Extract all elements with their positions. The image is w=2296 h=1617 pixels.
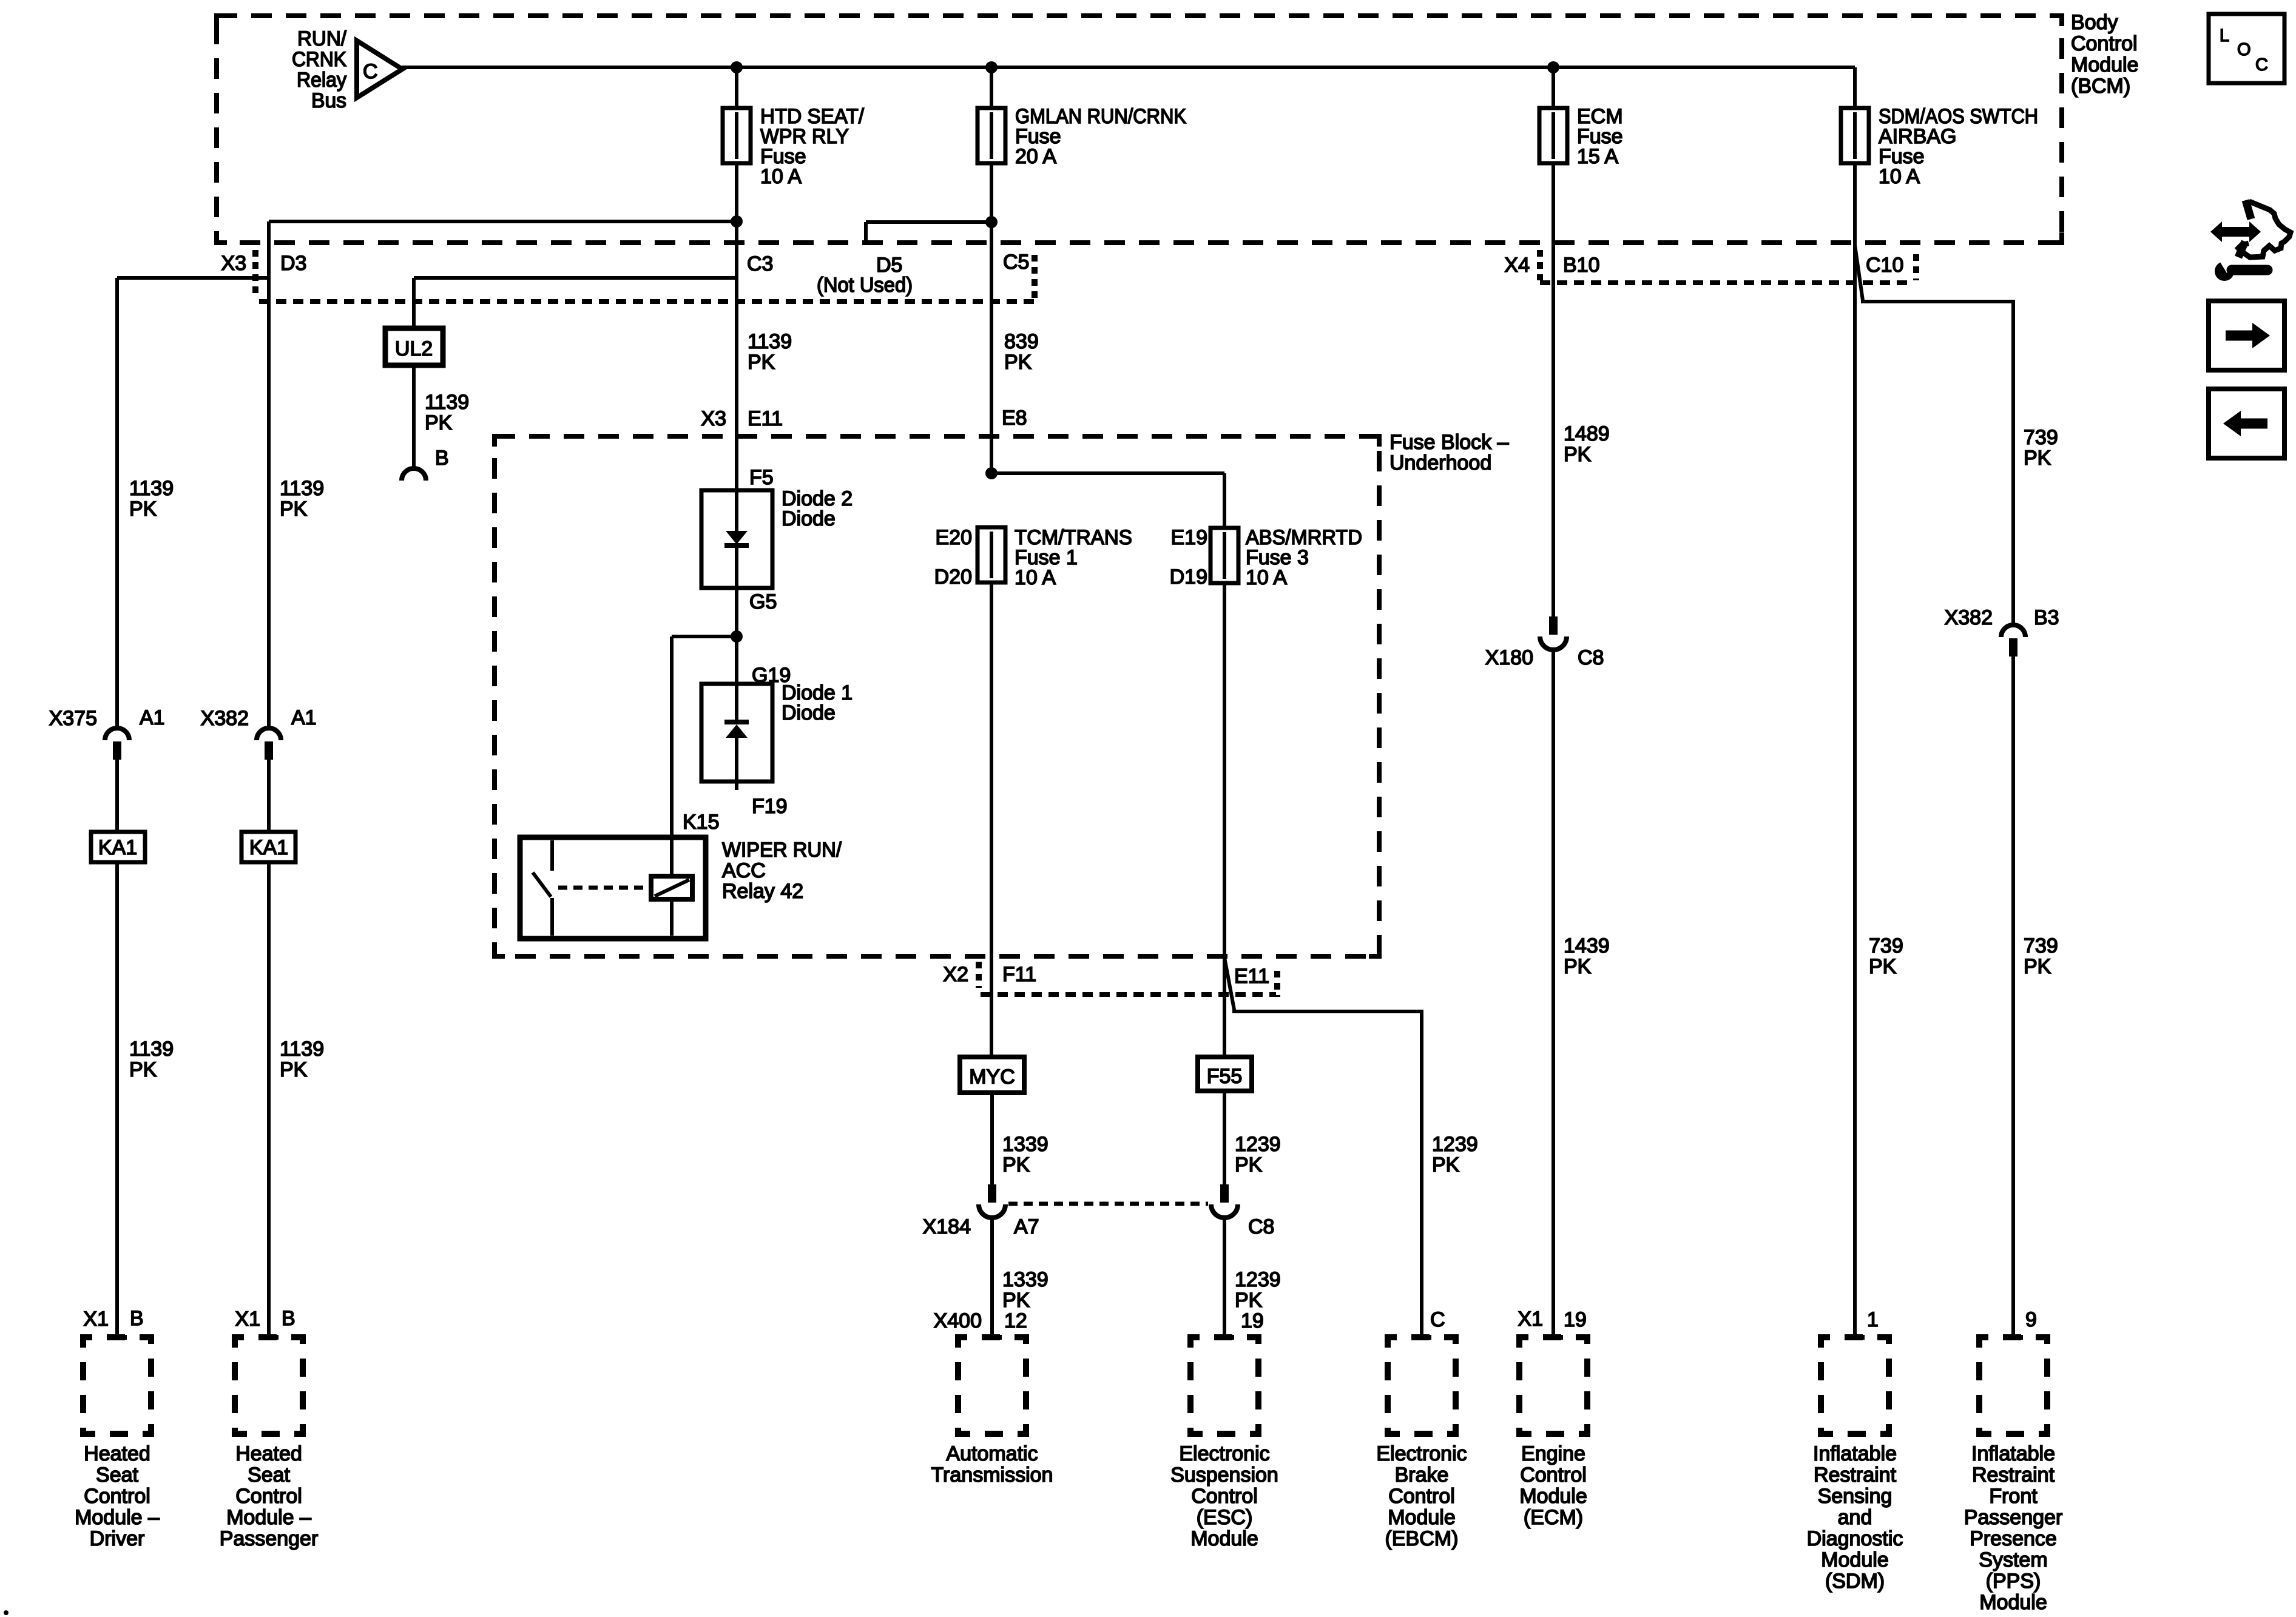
svg-text:X375: X375 [49,707,97,730]
backward reference arrow icon [2209,389,2284,458]
forward reference arrow icon [2209,301,2284,370]
bus source triangle C [357,41,402,98]
wire heated seat passenger lower [267,759,271,1337]
BCM box corner brackets [217,16,227,26]
svg-text:E19: E19 [1171,526,1208,549]
dotted separator X3 [252,250,258,296]
svg-text:MYC: MYC [969,1065,1015,1089]
svg-text:L: L [2220,26,2229,46]
relay actuator dashed link [558,886,647,890]
module Heated Seat Control Module Driver [107,1335,127,1340]
wire X180 to ECM module [1551,650,1555,1337]
svg-text:B: B [282,1307,295,1330]
junction bus/GMLAN fuse [985,61,998,73]
wire C3 down to diodes [735,221,738,490]
module Electronic Suspension Control Module [1215,1335,1234,1340]
relay coil [670,837,674,876]
fuse HTD SEAT/WPR RLY 10A [735,67,738,108]
connector X382 A1 symbol [257,728,281,740]
connector F55 box [1198,1057,1252,1091]
dotted connector row line left [259,299,1035,304]
wire diode1 stub F19 [735,781,738,790]
relay switch blade [533,873,551,897]
svg-text:C8: C8 [1248,1215,1274,1238]
svg-text:O: O [2237,40,2251,59]
dotted separator X4 [1537,250,1543,280]
relay WIPER RUN/ACC Relay 42 box [520,837,706,939]
diode D2 box [701,490,772,588]
diode 1 symbol [735,684,738,723]
module Automatic Transmission [982,1335,1002,1340]
wire TCM fuse to MYC [990,581,993,1057]
ground B connector half circle [402,468,426,481]
svg-text:D19: D19 [1170,565,1207,589]
dotted separator after C5 [1032,255,1038,302]
connector X382 B3 symbol [2001,625,2025,637]
svg-text:UL2: UL2 [395,337,433,360]
fuse SDM/AOS SWTCH AIRBAG 10A [1841,108,1869,163]
svg-text:K15: K15 [683,811,720,834]
wire UL2 to ground B [412,365,416,468]
wire D5 stub [866,220,991,224]
connector MYC box [960,1057,1024,1093]
dotted connector row line right [1540,280,1913,285]
svg-text:B: B [130,1307,144,1330]
svg-text:C5: C5 [1003,251,1029,274]
svg-text:X382: X382 [201,707,249,730]
svg-text:A7: A7 [1014,1215,1039,1238]
wire MYC to X184 [990,1093,994,1184]
svg-text:G5: G5 [749,590,777,613]
wire heated seat driver vertical [115,278,119,726]
svg-text:B: B [435,447,449,470]
fuse TCM/TRANS Fuse 1 10A [977,527,1005,582]
wire ABS fuse to F55 [1223,583,1226,1057]
svg-text:ElectronicBrakeControlModule(E: ElectronicBrakeControlModule(EBCM) [1376,1442,1467,1550]
wire junction to relay [672,635,737,638]
wire UL2 branch horizontal [414,276,737,280]
wire C8 to ESC [1223,1218,1226,1337]
svg-text:X2: X2 [943,963,968,986]
junction bus/HTD fuse [731,61,743,73]
svg-text:Fuse Block –Underhood: Fuse Block –Underhood [1389,431,1509,474]
svg-text:ECMFuse15 A: ECMFuse15 A [1577,105,1623,168]
svg-text:B10: B10 [1563,254,1600,277]
service icon double arrow with wrench [2210,200,2291,281]
diode D1 box [701,684,772,781]
connector X375 A1 symbol [105,728,129,740]
svg-text:F5: F5 [749,466,774,489]
svg-text:D3: D3 [280,252,306,275]
svg-text:F55: F55 [1207,1065,1243,1088]
connector X184 C8 symbol [1220,1184,1229,1203]
junction TCM/ABS branch [985,467,998,479]
svg-text:E8: E8 [1002,407,1027,430]
svg-text:C: C [363,60,378,83]
wire A7 to X400 [990,1218,994,1337]
svg-text:1: 1 [1867,1308,1879,1331]
wire B3 to PPS module [2011,657,2015,1337]
wire D5 stub down [864,222,868,242]
dashed link X184 connectors [1008,1202,1208,1206]
svg-text:C3: C3 [747,252,773,275]
svg-text:KA1: KA1 [98,836,137,859]
wire to UL2 [412,278,416,328]
svg-text:X1: X1 [83,1308,109,1331]
fuse ECM 15A [1551,67,1555,108]
splice UL2 box [385,328,443,365]
svg-text:X4: X4 [1504,254,1530,277]
svg-text:C: C [1430,1308,1445,1331]
fuse GMLAN RUN/CRNK 20A [990,67,993,108]
module Heated Seat Control Module Passenger [259,1335,279,1340]
module Inflatable Restraint SDM [1845,1335,1865,1340]
svg-text:C: C [2255,55,2268,75]
junction C3 wire [731,215,743,228]
svg-text:E20: E20 [936,526,973,549]
svg-text:19: 19 [1241,1309,1264,1332]
Fuse block box corner brackets [495,436,505,447]
wire BCM internal to pin D3 [269,220,737,223]
svg-text:19: 19 [1564,1308,1587,1331]
svg-text:X1: X1 [235,1308,260,1331]
svg-text:X382: X382 [1945,606,1993,629]
wire down to relay K15 [670,636,674,837]
page period mark [4,1610,8,1615]
dotted separator X2 [976,962,982,988]
dotted separator after E11 [1274,971,1280,997]
connector KA1 driver box [91,832,145,862]
wire G5 to G19 [735,588,738,684]
relay switch contact [550,840,554,871]
svg-text:E11: E11 [1234,965,1269,988]
svg-text:B3: B3 [2034,606,2059,629]
dotted separator after C10 [1913,254,1919,280]
RUN/CRNK relay bus wire [402,66,1855,69]
dotted connector row line bottom [981,992,1276,997]
svg-text:12: 12 [1004,1309,1027,1332]
svg-text:X1: X1 [1518,1308,1543,1331]
wire D3 to heated seat passenger upper [267,221,271,726]
svg-text:F11: F11 [1002,963,1036,986]
connector X184 A7 symbol [988,1184,996,1203]
module PPS Module [2004,1335,2023,1340]
svg-text:E11: E11 [748,407,783,430]
connector KA1 passenger box [241,832,295,862]
svg-text:D20: D20 [934,565,972,589]
fuse ABS/MRRTD Fuse 3 10A [1210,528,1238,583]
connector X180 C8 symbol [1549,616,1558,635]
svg-text:(Not Used): (Not Used) [817,274,913,297]
diode 2 symbol [735,490,738,532]
svg-text:X3: X3 [701,407,726,430]
module Electronic Brake Control Module [1412,1335,1431,1340]
svg-text:X184: X184 [923,1215,971,1238]
svg-text:X3: X3 [221,252,246,275]
wire to heated seat driver horizontal [117,276,269,280]
svg-text:A1: A1 [291,706,317,729]
wire branch to ABS fuse [991,471,1224,475]
svg-text:C8: C8 [1578,646,1604,669]
wire F55 to C8 [1223,1091,1226,1184]
svg-text:A1: A1 [140,706,165,729]
LOC reference icon [2209,14,2284,83]
svg-text:C10: C10 [1866,254,1903,277]
wire down to ABS fuse [1223,473,1226,528]
svg-text:F19: F19 [752,795,788,818]
wire branch to EBCM [1224,957,1422,1337]
junction diode/relay branch [731,630,743,643]
svg-text:X180: X180 [1485,646,1533,669]
junction bus/ECM fuse [1547,61,1559,73]
svg-text:9: 9 [2025,1308,2037,1331]
svg-text:EngineControlModule(ECM): EngineControlModule(ECM) [1519,1442,1587,1529]
Fuse Block Underhood dashed box [495,436,1379,956]
bus corner down to SDM fuse [1853,67,1857,110]
svg-text:X400: X400 [934,1309,982,1332]
svg-text:AutomaticTransmission: AutomaticTransmission [931,1442,1053,1487]
wire branch C10 to PPS [1855,245,2013,624]
module Engine Control Module [1544,1335,1563,1340]
svg-text:KA1: KA1 [249,836,288,859]
BCM module dashed box [217,16,2062,243]
junction C5 wire [985,216,998,228]
